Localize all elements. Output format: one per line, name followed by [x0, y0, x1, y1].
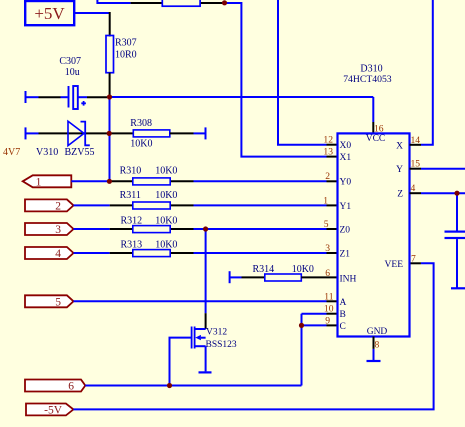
wire +5V to R307: [75, 12, 110, 37]
node row3 junction: [203, 226, 208, 231]
wire top net: [97, 0, 337, 157]
svg-text:Y: Y: [396, 165, 403, 175]
svg-text:Y0: Y0: [340, 178, 352, 188]
resistor R312: [121, 216, 178, 233]
node top junction: [222, 0, 227, 5]
svg-text:Z: Z: [397, 190, 403, 200]
wire R307 lower pin: [109, 73, 111, 97]
power port +5V: [25, 1, 74, 25]
svg-text:BZV55: BZV55: [65, 147, 95, 158]
capacitor at right edge: [445, 193, 465, 288]
svg-text:C307: C307: [59, 56, 81, 67]
svg-text:11: 11: [324, 291, 333, 302]
port 1: [23, 175, 72, 188]
port 2: [25, 199, 74, 212]
transistor V312 BSS123: [191, 327, 237, 350]
svg-text:INH: INH: [340, 274, 357, 284]
svg-text:BSS123: BSS123: [206, 340, 237, 350]
wire B C feed: [302, 314, 338, 386]
svg-text:3: 3: [325, 243, 330, 254]
svg-text:10K0: 10K0: [155, 216, 177, 227]
svg-text:R311: R311: [120, 190, 141, 201]
wire row5: [74, 300, 338, 302]
svg-text:10K0: 10K0: [155, 166, 177, 177]
svg-text:X0: X0: [340, 141, 352, 151]
svg-text:4V7: 4V7: [3, 147, 20, 158]
svg-text:16: 16: [374, 124, 384, 135]
pin numbers right and top bottom: [374, 124, 420, 351]
node C junction: [299, 323, 304, 328]
svg-text:10K0: 10K0: [155, 240, 177, 251]
svg-text:10: 10: [324, 304, 334, 315]
ground bar below V312: [199, 371, 212, 373]
svg-text:-5V: -5V: [44, 404, 63, 416]
svg-text:10K0: 10K0: [292, 264, 314, 275]
wire -5V to VEE: [73, 263, 433, 409]
wire Y pin: [410, 168, 465, 170]
wire drain net: [205, 229, 207, 329]
resistor R310: [120, 166, 178, 185]
pin labels right: [385, 141, 404, 269]
svg-text:1: 1: [323, 195, 328, 206]
port -5V: [26, 404, 73, 417]
port 4: [25, 247, 74, 260]
svg-text:Z1: Z1: [340, 250, 351, 260]
node row6 junction: [167, 383, 172, 388]
svg-text:5: 5: [324, 219, 329, 230]
svg-text:R310: R310: [120, 166, 142, 177]
wire X pin: [410, 0, 433, 145]
svg-text:B: B: [340, 310, 346, 320]
resistor R308: [111, 118, 206, 150]
resistor R314: [230, 264, 338, 283]
svg-text:10K0: 10K0: [155, 190, 177, 201]
wire pin 8 stub: [373, 337, 375, 362]
wire row3: [74, 228, 338, 230]
svg-text:R307: R307: [115, 38, 137, 49]
svg-text:5: 5: [55, 296, 61, 308]
wire X0 net: [278, 0, 338, 145]
port 6: [25, 380, 85, 393]
svg-text:13: 13: [323, 147, 333, 158]
ground bar pin 8: [367, 360, 381, 362]
wire vertical bus x=109.5: [109, 97, 111, 181]
IC D310 74HCT4053 analog multiplexer: [338, 63, 410, 337]
svg-text:R314: R314: [253, 264, 275, 275]
wire gate net: [170, 338, 192, 386]
resistor R311: [120, 190, 178, 209]
svg-text:D310: D310: [360, 63, 382, 74]
capacitor C307: [26, 56, 108, 109]
svg-text:10K0: 10K0: [130, 139, 152, 150]
node VCC junction: [107, 94, 112, 99]
svg-text:Z0: Z0: [340, 226, 351, 236]
wire row4: [74, 252, 338, 254]
node Z junction: [454, 191, 459, 196]
svg-text:VEE: VEE: [385, 260, 404, 270]
svg-text:9: 9: [325, 315, 330, 326]
svg-text:VCC: VCC: [366, 134, 386, 144]
svg-text:10R0: 10R0: [115, 50, 137, 61]
pin numbers left: [323, 135, 334, 327]
svg-text:6: 6: [68, 381, 74, 393]
resistor R307: [106, 36, 137, 73]
svg-text:2: 2: [325, 171, 330, 182]
node row1 junction: [107, 179, 112, 184]
pin labels left: [340, 141, 357, 332]
svg-text:1: 1: [36, 176, 42, 188]
svg-text:10u: 10u: [65, 67, 80, 78]
svg-text:V312: V312: [206, 327, 227, 337]
wire Z pin: [410, 192, 465, 194]
svg-text:R313: R313: [121, 240, 143, 251]
port 3: [25, 223, 74, 236]
port 5: [25, 295, 74, 308]
resistor R313: [121, 240, 178, 257]
wire VCC net: [110, 97, 374, 133]
svg-text:R308: R308: [130, 118, 152, 129]
svg-text:+5V: +5V: [34, 4, 65, 23]
svg-text:74HCT4053: 74HCT4053: [343, 74, 392, 85]
svg-text:3: 3: [55, 224, 61, 236]
wire row2: [74, 204, 338, 206]
svg-text:X: X: [396, 141, 403, 151]
svg-text:8: 8: [375, 340, 380, 351]
svg-text:A: A: [340, 298, 347, 308]
svg-text:C: C: [340, 322, 346, 332]
svg-text:4: 4: [55, 248, 61, 260]
svg-text:12: 12: [323, 135, 333, 146]
resistor at top edge: [162, 0, 200, 6]
svg-text:R312: R312: [121, 216, 143, 227]
wire row1: [71, 180, 337, 182]
svg-text:Y1: Y1: [340, 202, 352, 212]
node zener junction: [107, 131, 112, 136]
svg-text:X1: X1: [340, 153, 352, 163]
svg-text:V310: V310: [36, 147, 58, 158]
svg-text:GND: GND: [367, 327, 388, 337]
diode V310 BZV55 zener: [3, 121, 109, 158]
svg-text:6: 6: [325, 268, 330, 279]
wire row6: [85, 385, 301, 387]
svg-text:2: 2: [55, 200, 61, 212]
wire V312 source down: [205, 346, 207, 371]
svg-text:7: 7: [411, 253, 416, 264]
